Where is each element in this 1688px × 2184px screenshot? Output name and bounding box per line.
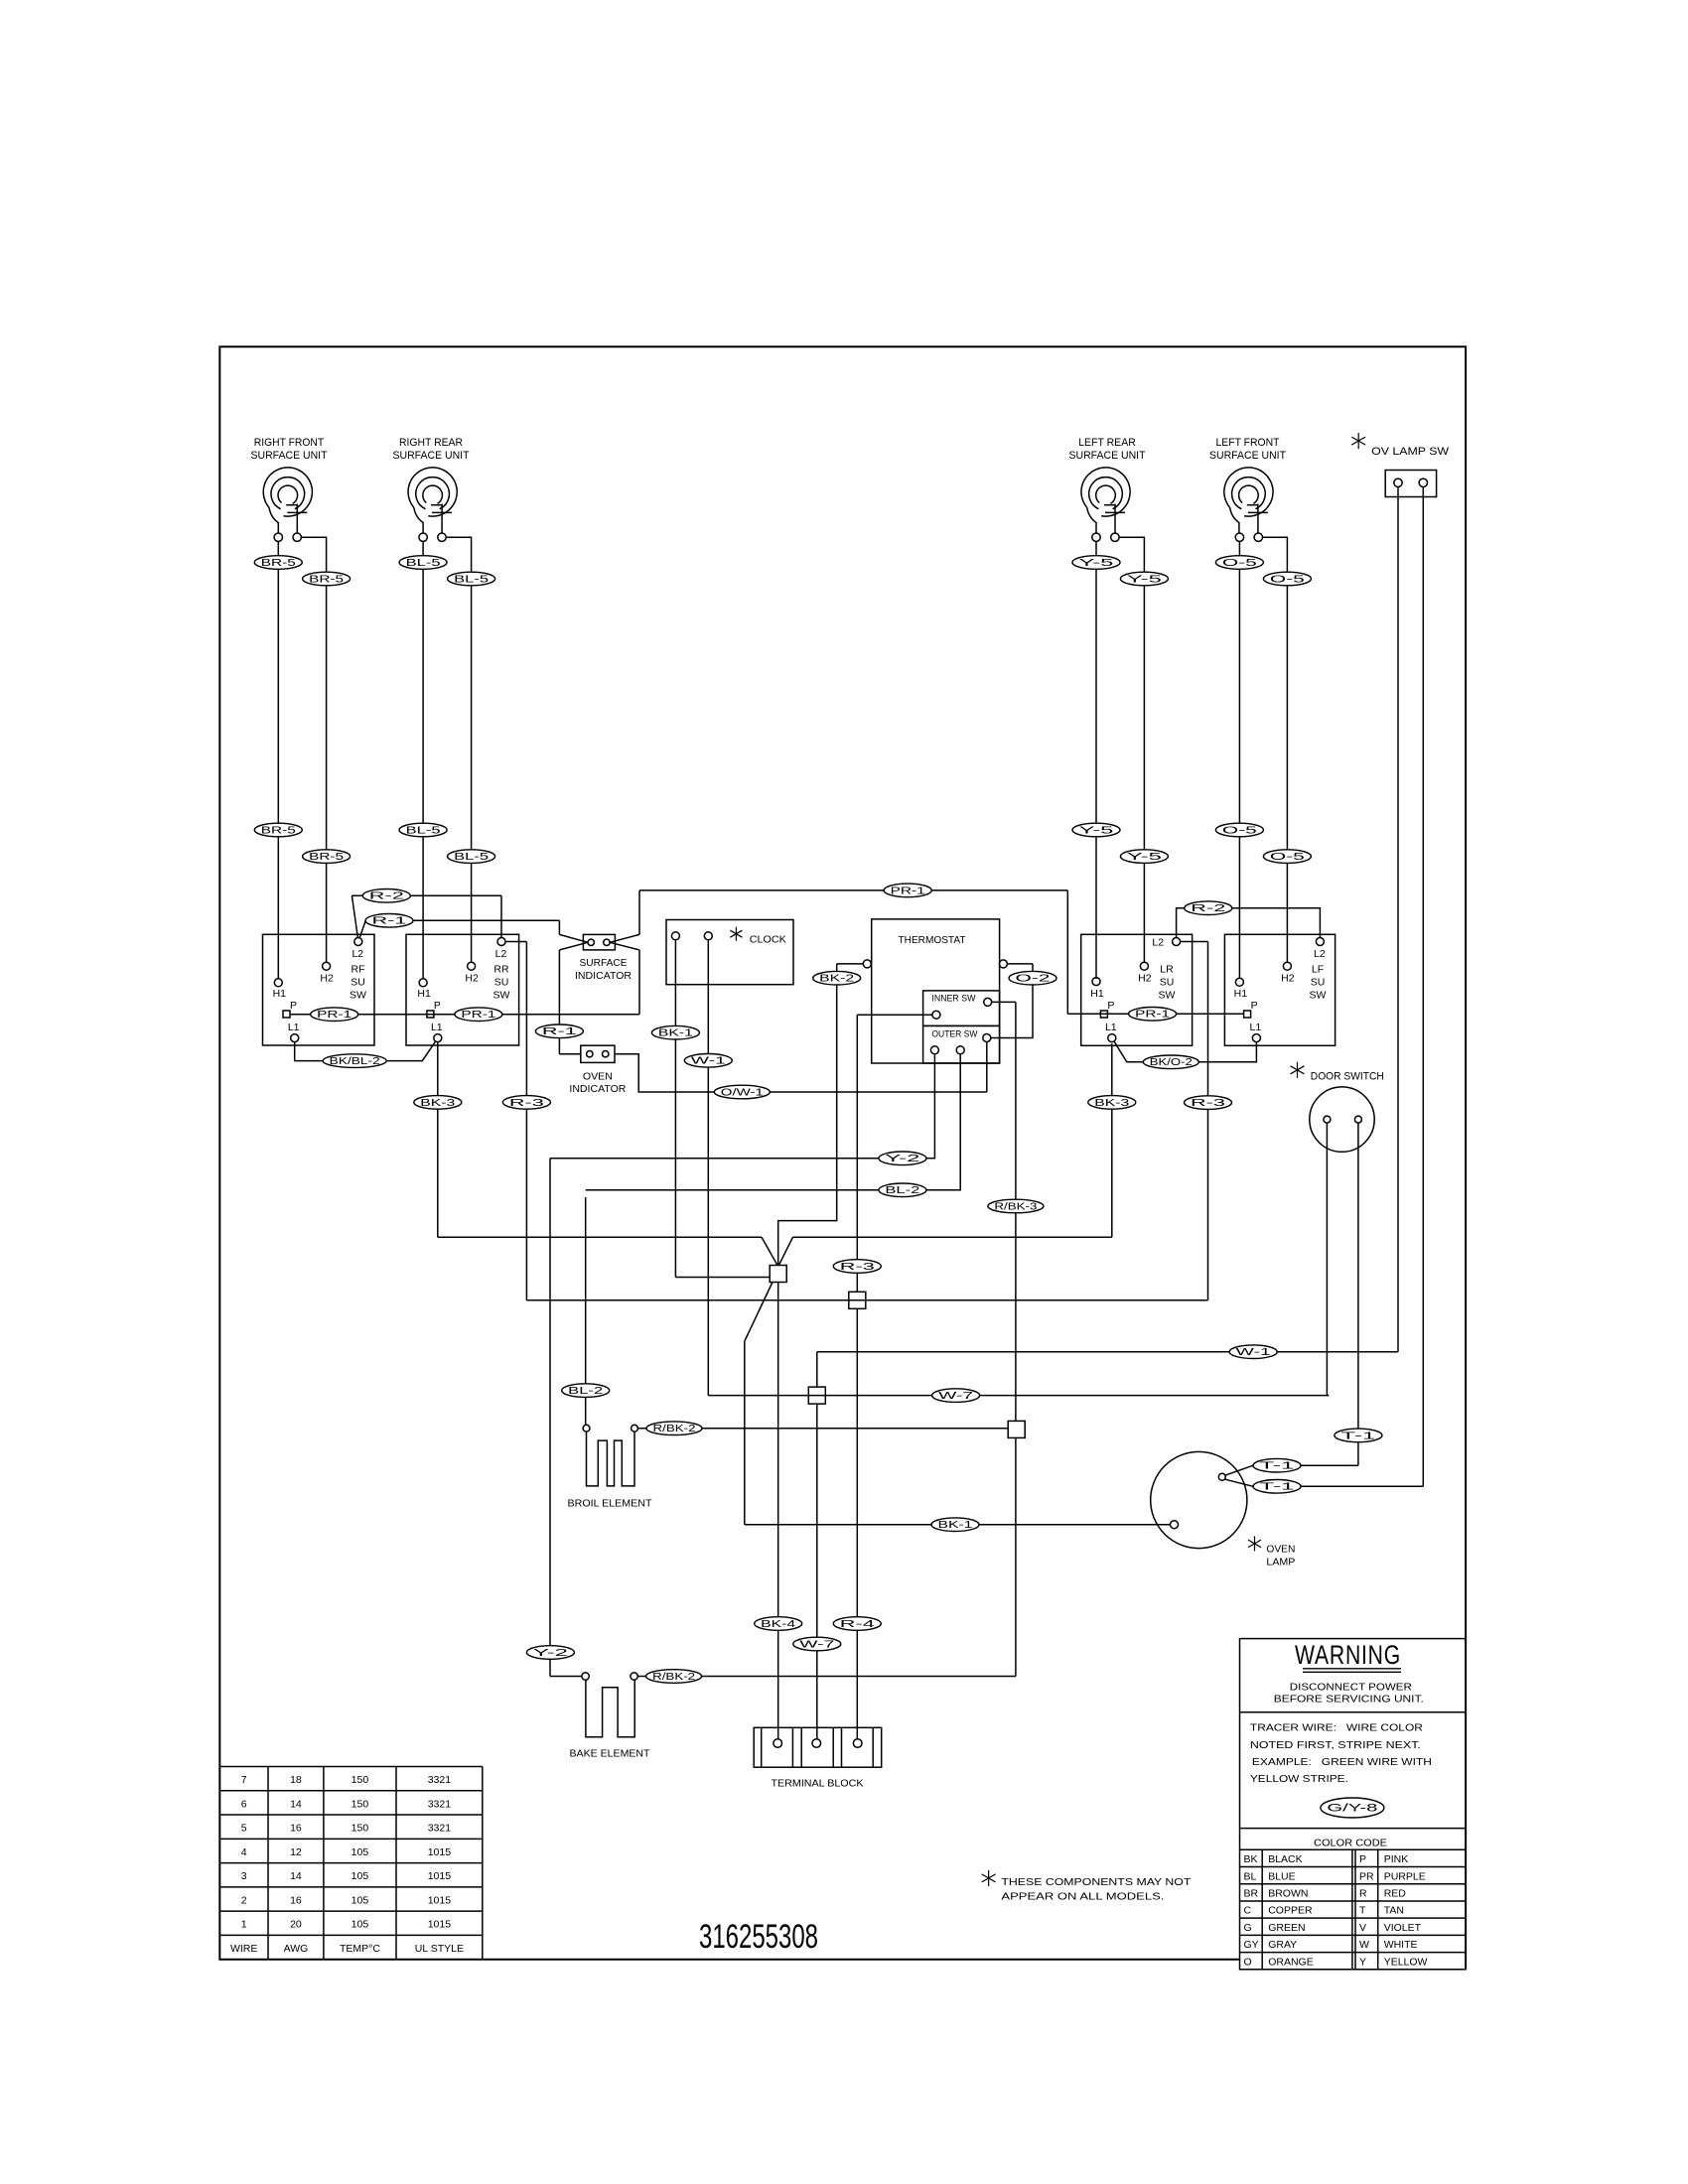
wire label Y-5 mid-left <box>1072 823 1120 837</box>
terminal oven indicator left <box>587 1051 593 1057</box>
wire LEFT REAR left drop <box>1095 570 1097 823</box>
lead surface indicator right diagonals <box>610 934 639 942</box>
svg-text:G: G <box>1244 1922 1252 1934</box>
svg-text:Y: Y <box>1359 1956 1366 1968</box>
wire LEFT REAR right drop 2 <box>1143 864 1145 963</box>
wire label PR-1 in RF <box>311 1008 358 1022</box>
terminal LEFT REAR left <box>1092 533 1100 541</box>
svg-text:BR-5: BR-5 <box>309 852 345 863</box>
wire R/BK down to bake <box>1015 1437 1017 1676</box>
terminal block divider 3 <box>800 1727 802 1767</box>
svg-text:316255308: 316255308 <box>699 1918 818 1956</box>
svg-text:OVEN: OVEN <box>583 1071 613 1083</box>
svg-text:R-2: R-2 <box>1191 903 1225 914</box>
wire PR-1 to LR.P and LF.P <box>1067 1013 1243 1015</box>
wire label PR-1 in RR <box>455 1008 502 1022</box>
wire label BR-5 mid-right <box>303 850 351 864</box>
wire OV LAMP SW left drop W-1 <box>1397 487 1399 1352</box>
svg-text:O-5: O-5 <box>1270 852 1306 863</box>
terminal LEFT FRONT left <box>1235 533 1243 541</box>
terminal LEFT FRONT right <box>1254 533 1262 541</box>
svg-text:3: 3 <box>241 1870 247 1882</box>
terminal clock right <box>704 932 712 940</box>
svg-text:1015: 1015 <box>428 1846 452 1858</box>
svg-text:BL-5: BL-5 <box>454 574 490 585</box>
wire label BK-4 <box>755 1617 802 1631</box>
wire label BL-5 mid-left <box>399 823 447 837</box>
svg-text:PR-1: PR-1 <box>1135 1010 1170 1021</box>
svg-text:R-1: R-1 <box>542 1026 577 1037</box>
wire bake R/BK-2 line <box>637 1676 1016 1678</box>
wire label R-4 <box>833 1617 881 1631</box>
terminal LF H1 <box>1235 978 1243 986</box>
wire label O-2 <box>1009 971 1056 985</box>
wire inner sw left lead <box>857 1014 932 1016</box>
svg-text:AWG: AWG <box>284 1943 309 1955</box>
terminal RF L2 <box>354 938 362 946</box>
terminal RF L1 <box>291 1034 299 1042</box>
svg-text:150: 150 <box>352 1774 369 1786</box>
wire label BL-2 lower <box>562 1384 610 1398</box>
table wire gauge grid <box>219 1766 483 1768</box>
component LF SU SW box <box>1224 934 1335 1045</box>
terminal bake right <box>631 1673 637 1680</box>
svg-text:L2: L2 <box>1152 937 1164 949</box>
component OUTER SW box <box>923 1025 1000 1063</box>
svg-text:BROIL ELEMENT: BROIL ELEMENT <box>568 1497 653 1509</box>
svg-text:SURFACE UNIT: SURFACE UNIT <box>251 450 328 462</box>
wire LEFT REAR right drop <box>1143 563 1145 849</box>
asterisk components note <box>988 1870 990 1886</box>
wire label BK-3 left <box>414 1096 462 1110</box>
wire label BK-3 right <box>1088 1096 1136 1110</box>
svg-text:W-7: W-7 <box>938 1391 973 1402</box>
svg-text:L1: L1 <box>1105 1022 1117 1033</box>
svg-text:TEMP°C: TEMP°C <box>340 1943 380 1955</box>
svg-text:4: 4 <box>241 1846 247 1858</box>
terminal block divider 2 <box>791 1727 793 1767</box>
svg-text:SW: SW <box>350 990 366 1002</box>
terminal LR L2 <box>1173 938 1181 946</box>
component SURFACE INDICATOR box <box>583 934 615 950</box>
lead surface indicator left diagonals <box>559 934 588 942</box>
terminal LF P <box>1244 1011 1251 1018</box>
terminal RIGHT FRONT right <box>293 533 301 541</box>
svg-text:BR-5: BR-5 <box>309 574 345 585</box>
svg-text:SU: SU <box>351 977 365 989</box>
wire label O-5 upper-left <box>1215 556 1263 570</box>
svg-text:2: 2 <box>241 1894 247 1906</box>
svg-text:YELLOW STRIPE.: YELLOW STRIPE. <box>1250 1773 1348 1785</box>
asterisk OV LAMP SW <box>1357 433 1359 449</box>
svg-text:BK-1: BK-1 <box>938 1520 973 1531</box>
svg-text:W-7: W-7 <box>799 1639 834 1650</box>
wire label O-5 mid-right <box>1263 850 1311 864</box>
wire R-4 down to terminal block <box>856 1308 858 1738</box>
wire label R/BK-2 broil <box>646 1422 702 1435</box>
svg-text:16: 16 <box>290 1823 302 1835</box>
terminal RF P <box>283 1011 290 1018</box>
svg-text:O-5: O-5 <box>1222 825 1258 836</box>
wire R-2 link RF.L2 to RR.L2 <box>352 895 357 937</box>
svg-text:BR: BR <box>1244 1888 1259 1900</box>
terminal block divider 4 <box>832 1727 834 1767</box>
svg-text:INDICATOR: INDICATOR <box>575 970 632 982</box>
asterisk oven lamp <box>1254 1536 1256 1551</box>
wire clock BK-1 drop <box>674 940 676 1278</box>
svg-text:150: 150 <box>352 1823 369 1835</box>
terminal inner sw right <box>984 998 992 1006</box>
svg-text:Y-5: Y-5 <box>1079 825 1115 836</box>
wire RIGHT REAR right drop 2 <box>471 864 473 963</box>
asterisk door switch <box>1297 1062 1299 1078</box>
svg-text:SW: SW <box>1310 990 1327 1002</box>
svg-text:P: P <box>1251 1000 1258 1012</box>
wire RIGHT FRONT left lead <box>277 541 279 555</box>
svg-text:O/W-1: O/W-1 <box>721 1087 764 1098</box>
wire label Y-5 upper-right <box>1120 572 1168 586</box>
wire label BK-1 lamp <box>931 1518 979 1532</box>
wire clock BK-1 to junction <box>675 1277 770 1279</box>
terminal oven indicator right <box>603 1051 609 1057</box>
component CLOCK box <box>666 920 793 985</box>
svg-text:P: P <box>434 1000 441 1012</box>
svg-text:NOTED FIRST, STRIPE NEXT.: NOTED FIRST, STRIPE NEXT. <box>1250 1739 1421 1751</box>
svg-text:SW: SW <box>493 990 510 1002</box>
terminal clock left <box>671 932 679 940</box>
wire LEFT FRONT left drop 2 <box>1238 837 1240 979</box>
svg-text:O-5: O-5 <box>1222 558 1258 569</box>
svg-text:DOOR SWITCH: DOOR SWITCH <box>1311 1071 1384 1083</box>
svg-text:T-1: T-1 <box>1260 1482 1295 1493</box>
wire oven indicator to O/W-1 <box>615 1054 987 1092</box>
svg-text:BL: BL <box>1244 1870 1257 1882</box>
svg-text:BK-3: BK-3 <box>420 1098 456 1109</box>
terminal RF H2 <box>323 962 331 970</box>
wire door switch left drop <box>1326 1123 1328 1396</box>
terminal RR P <box>427 1011 434 1018</box>
wire R-1 from RF.L2 <box>359 920 365 937</box>
component INNER SW box <box>923 991 1000 1026</box>
warning divider 1 <box>1240 1711 1467 1713</box>
svg-text:EXAMPLE: GREEN WIRE WITH: EXAMPLE: GREEN WIRE WITH <box>1252 1756 1432 1768</box>
wire label BR-5 mid-left <box>254 823 302 837</box>
wire BK-1 to oven lamp <box>745 1524 1171 1526</box>
terminal outer sw right <box>983 1034 991 1042</box>
wire label PR-1 in LR <box>1129 1008 1177 1022</box>
svg-text:3321: 3321 <box>428 1774 452 1786</box>
svg-text:BLACK: BLACK <box>1268 1853 1302 1865</box>
svg-text:R/BK-3: R/BK-3 <box>994 1201 1038 1212</box>
svg-text:H2: H2 <box>465 972 479 984</box>
svg-text:3321: 3321 <box>428 1798 452 1810</box>
svg-text:INNER SW: INNER SW <box>931 994 975 1005</box>
wire label BL-5 upper-right <box>448 572 495 586</box>
svg-text:BK-4: BK-4 <box>761 1619 796 1630</box>
wire RIGHT FRONT right drop <box>326 563 328 849</box>
svg-text:PURPLE: PURPLE <box>1384 1870 1426 1882</box>
terminal OV LAMP SW right <box>1419 478 1427 486</box>
wire LEFT REAR left lead <box>1095 541 1097 555</box>
svg-text:18: 18 <box>290 1774 302 1786</box>
terminal block circle W-7 <box>812 1739 821 1748</box>
terminal LR L1 <box>1108 1034 1116 1042</box>
wire label BK/O-2 <box>1143 1055 1198 1069</box>
wire W-1 branch up <box>816 1352 818 1387</box>
svg-text:T: T <box>1359 1905 1366 1917</box>
wire PR-1 top horizontal <box>639 889 1067 891</box>
svg-text:P: P <box>1359 1853 1366 1865</box>
svg-text:LEFT REAR: LEFT REAR <box>1078 437 1136 449</box>
wire PR-1 vertical upper <box>638 890 640 935</box>
wire label PR-1 top <box>884 884 931 897</box>
element coil LEFT REAR surface unit <box>1081 468 1130 516</box>
svg-text:R-3: R-3 <box>840 1262 876 1273</box>
wire label Y-2 upper <box>879 1152 926 1165</box>
wire LEFT REAR left drop 2 <box>1095 837 1097 979</box>
svg-text:OVEN: OVEN <box>1266 1544 1295 1556</box>
svg-text:R-1: R-1 <box>372 916 407 927</box>
svg-text:PR-1: PR-1 <box>461 1010 495 1021</box>
component LR SU SW box <box>1081 934 1193 1045</box>
component RR SU SW box <box>406 934 519 1045</box>
svg-text:PINK: PINK <box>1384 1853 1409 1865</box>
svg-text:150: 150 <box>352 1798 369 1810</box>
component OV LAMP SW box <box>1385 471 1436 497</box>
wire label R-2 right <box>1185 901 1232 915</box>
svg-text:V: V <box>1359 1922 1366 1934</box>
table color code grid <box>1240 1848 1467 1850</box>
svg-text:SURFACE: SURFACE <box>580 957 628 969</box>
wire OV LAMP SW right drop T-1 <box>1422 487 1424 1487</box>
wire label O-5 upper-right <box>1263 572 1311 586</box>
wire R-2 link LR.L2 to LF.L2 <box>1177 908 1321 938</box>
wire RIGHT FRONT right lead bend <box>301 537 326 563</box>
svg-text:BAKE ELEMENT: BAKE ELEMENT <box>570 1747 651 1759</box>
terminal RIGHT FRONT left <box>274 533 282 541</box>
wire label Y-5 mid-right <box>1120 850 1168 864</box>
svg-text:H1: H1 <box>1234 988 1248 1000</box>
svg-text:GY: GY <box>1244 1939 1259 1951</box>
wire BK-3 left from RR.L1 <box>437 1042 439 1237</box>
terminal block divider 1 <box>761 1727 763 1767</box>
svg-text:1015: 1015 <box>428 1870 452 1882</box>
svg-text:5: 5 <box>241 1823 247 1835</box>
component DOOR SWITCH circle <box>1310 1087 1374 1152</box>
wire label BL-5 mid-right <box>448 850 495 864</box>
component THERMOSTAT box <box>872 919 1000 1063</box>
svg-text:Y-2: Y-2 <box>533 1648 568 1659</box>
wire T-1 line 1 <box>1225 1465 1253 1475</box>
svg-text:SURFACE UNIT: SURFACE UNIT <box>1069 450 1146 462</box>
wire label BK-1 clock <box>651 1025 699 1039</box>
svg-text:BL-2: BL-2 <box>885 1185 919 1196</box>
svg-text:6: 6 <box>241 1798 247 1810</box>
svg-text:14: 14 <box>290 1798 302 1810</box>
svg-text:7: 7 <box>241 1774 247 1786</box>
wire RIGHT REAR left drop 2 <box>422 837 424 979</box>
wire label T-1 mid <box>1253 1458 1301 1472</box>
svg-text:VIOLET: VIOLET <box>1384 1922 1422 1934</box>
wire label T-1 lower <box>1253 1480 1301 1494</box>
svg-text:105: 105 <box>352 1894 369 1906</box>
wire BL-2 drop to broil <box>585 1197 587 1425</box>
terminal RR L1 <box>434 1034 442 1042</box>
terminal RF H1 <box>274 979 282 987</box>
wire label BL-2 upper <box>879 1183 926 1197</box>
svg-text:LR: LR <box>1160 964 1174 976</box>
wire RIGHT REAR right drop <box>471 563 473 849</box>
element coil LEFT FRONT surface unit <box>1224 468 1273 516</box>
wire BK/BL-2 RF.L1 to RR.L1 <box>295 1041 436 1061</box>
wire label W-1 clock <box>684 1054 732 1068</box>
svg-text:Y-5: Y-5 <box>1079 558 1115 569</box>
wire RIGHT REAR left lead <box>422 541 424 555</box>
svg-text:RIGHT FRONT: RIGHT FRONT <box>254 437 325 449</box>
svg-text:TERMINAL BLOCK: TERMINAL BLOCK <box>772 1777 864 1789</box>
element coil RIGHT REAR surface unit <box>408 468 457 516</box>
svg-text:LAMP: LAMP <box>1266 1557 1295 1569</box>
wire O/W-1 up to outer sw <box>986 1042 988 1093</box>
wire label R-2 left <box>362 889 410 903</box>
warning underline double <box>1303 1668 1401 1670</box>
svg-text:BK-2: BK-2 <box>819 974 854 985</box>
wire Y-2 drop to bake <box>549 1159 551 1677</box>
element BAKE ELEMENT <box>586 1680 634 1737</box>
svg-text:L1: L1 <box>1250 1022 1262 1033</box>
terminal RR H2 <box>468 962 476 970</box>
svg-text:Y-5: Y-5 <box>1127 852 1163 863</box>
terminal door switch right <box>1354 1116 1361 1123</box>
wire label W-1 right <box>1229 1345 1277 1359</box>
wire BK-3 right from LR.L1 <box>1111 1043 1113 1237</box>
terminal oven lamp left <box>1171 1521 1179 1529</box>
svg-text:H2: H2 <box>1138 972 1152 984</box>
terminal door switch left <box>1324 1116 1331 1123</box>
terminal RIGHT REAR left <box>419 533 427 541</box>
svg-text:H1: H1 <box>417 988 431 1000</box>
svg-text:COLOR CODE: COLOR CODE <box>1314 1838 1387 1849</box>
component OVEN INDICATOR box <box>581 1045 615 1062</box>
drawing border frame <box>219 346 1466 1970</box>
wire LEFT FRONT right drop <box>1286 563 1288 849</box>
svg-text:R-4: R-4 <box>840 1619 876 1630</box>
svg-text:H2: H2 <box>320 972 334 984</box>
svg-text:BL-5: BL-5 <box>406 558 442 569</box>
svg-text:H1: H1 <box>273 988 287 1000</box>
warning divider 2 <box>1240 1828 1467 1830</box>
svg-text:OV LAMP SW: OV LAMP SW <box>1371 446 1450 458</box>
terminal LF L2 <box>1316 938 1324 946</box>
wire label BR-5 upper-right <box>303 572 351 586</box>
svg-text:1015: 1015 <box>428 1919 452 1931</box>
wire PR-1 left P-line <box>290 1014 639 1016</box>
terminal block divider 6 <box>872 1727 874 1767</box>
wire label R-3 right <box>1185 1096 1232 1110</box>
svg-text:T-1: T-1 <box>1340 1431 1375 1441</box>
terminal thermostat left <box>863 960 871 968</box>
wire O-2 thermostat right <box>1007 963 1033 965</box>
terminal block circle BK-4 <box>774 1739 782 1748</box>
svg-text:PR-1: PR-1 <box>891 886 925 896</box>
svg-text:BL-5: BL-5 <box>406 825 442 836</box>
svg-text:H2: H2 <box>1281 972 1295 984</box>
terminal LR H2 <box>1140 962 1148 970</box>
svg-text:L2: L2 <box>1314 948 1326 960</box>
wire inner sw right lead <box>992 1001 1016 1003</box>
svg-text:GRAY: GRAY <box>1268 1939 1297 1951</box>
wire label R-3 mid <box>833 1260 881 1274</box>
wire LEFT REAR right lead bend <box>1119 537 1144 563</box>
svg-text:L1: L1 <box>288 1022 300 1033</box>
svg-text:WIRE: WIRE <box>230 1943 257 1955</box>
svg-text:W-1: W-1 <box>691 1056 726 1067</box>
svg-text:BL-2: BL-2 <box>568 1386 603 1397</box>
wire label BR-5 upper-left <box>254 556 302 570</box>
svg-text:PR-1: PR-1 <box>317 1010 352 1021</box>
wire label BL-5 upper-left <box>399 556 447 570</box>
wire RIGHT REAR right lead bend <box>446 537 471 563</box>
wire PR-1 vertical lower <box>638 950 640 1015</box>
svg-text:12: 12 <box>290 1846 302 1858</box>
terminal thermostat right <box>999 960 1007 968</box>
svg-text:105: 105 <box>352 1919 369 1931</box>
wire R-3 horizontal <box>526 1299 1207 1301</box>
svg-text:H1: H1 <box>1090 988 1104 1000</box>
svg-text:RED: RED <box>1384 1888 1407 1900</box>
terminal bake left <box>582 1673 589 1680</box>
wire LEFT FRONT left lead <box>1238 541 1240 555</box>
svg-text:O-5: O-5 <box>1270 574 1306 585</box>
wire BK-2 thermostat left <box>837 963 864 965</box>
svg-text:OUTER SW: OUTER SW <box>931 1028 977 1039</box>
wire RIGHT FRONT right drop 2 <box>326 864 328 963</box>
wire label O/W-1 <box>714 1085 770 1099</box>
svg-text:BK/O-2: BK/O-2 <box>1150 1057 1193 1068</box>
svg-text:O: O <box>1244 1956 1252 1968</box>
terminal broil left <box>583 1425 590 1432</box>
wire LEFT FRONT right lead bend <box>1263 537 1288 563</box>
svg-text:105: 105 <box>352 1870 369 1882</box>
svg-text:L2: L2 <box>495 948 507 960</box>
wire W-7 down to terminal block <box>816 1404 818 1739</box>
terminal LR H1 <box>1092 978 1100 986</box>
terminal inner sw left <box>932 1011 940 1019</box>
svg-text:SU: SU <box>494 977 509 989</box>
svg-text:L1: L1 <box>431 1022 443 1033</box>
terminal block circle R-4 <box>853 1739 862 1748</box>
wire R-3 right from LR.L2 <box>1181 941 1208 943</box>
svg-text:R-3: R-3 <box>1191 1098 1226 1109</box>
wire label R-1 lower <box>535 1024 583 1038</box>
svg-text:O-2: O-2 <box>1016 974 1051 985</box>
wire label T-1 upper <box>1335 1429 1382 1442</box>
svg-text:BEFORE SERVICING UNIT.: BEFORE SERVICING UNIT. <box>1274 1694 1424 1706</box>
svg-text:BK: BK <box>1244 1853 1258 1865</box>
svg-text:RR: RR <box>493 964 509 976</box>
wire label W-7 mid <box>932 1389 980 1403</box>
junction square R-3 <box>849 1292 866 1308</box>
component TERMINAL BLOCK box <box>754 1727 882 1767</box>
junction square R/BK-2 <box>1008 1421 1025 1437</box>
svg-text:1015: 1015 <box>428 1894 452 1906</box>
component WARNING box <box>1240 1639 1467 1970</box>
wire BK-1 diagonal from junction <box>745 1283 773 1342</box>
svg-text:R/BK-2: R/BK-2 <box>653 1424 696 1434</box>
svg-text:BROWN: BROWN <box>1268 1888 1308 1900</box>
svg-text:BL-5: BL-5 <box>454 852 490 863</box>
svg-text:14: 14 <box>290 1870 302 1882</box>
